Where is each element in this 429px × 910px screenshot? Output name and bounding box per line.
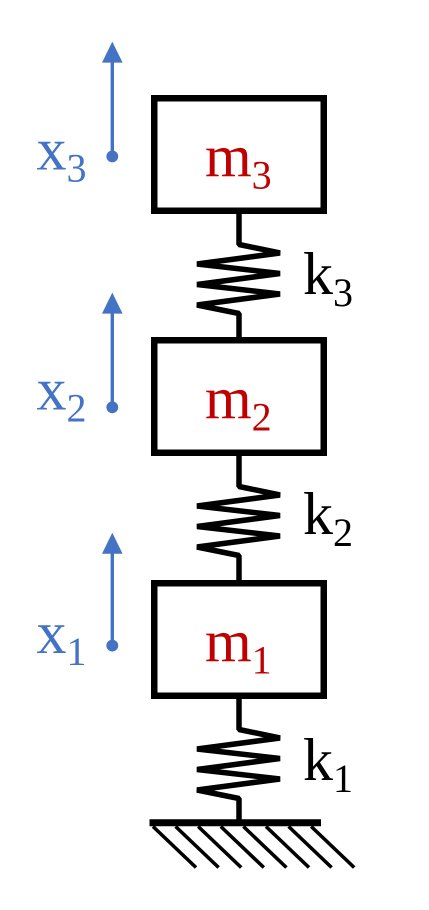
svg-text:x3: x3 xyxy=(37,117,87,191)
svg-text:k1: k1 xyxy=(303,727,353,801)
svg-text:k2: k2 xyxy=(303,481,353,555)
svg-text:x2: x2 xyxy=(37,357,87,431)
svg-text:k3: k3 xyxy=(303,241,353,315)
svg-text:x1: x1 xyxy=(37,600,87,674)
svg-text:m3: m3 xyxy=(205,124,272,198)
svg-text:m1: m1 xyxy=(205,609,272,683)
svg-text:m2: m2 xyxy=(205,366,272,440)
